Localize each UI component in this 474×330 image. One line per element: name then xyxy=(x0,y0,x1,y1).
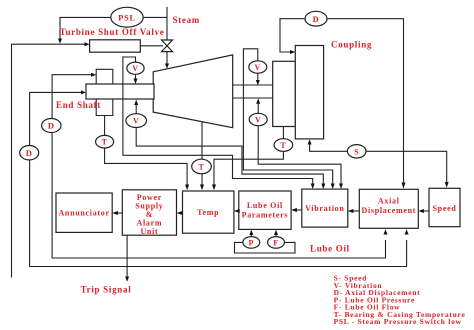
svg-text:D: D xyxy=(26,148,33,158)
svg-text:D: D xyxy=(313,14,320,24)
svg-text:Turbine Shut Off Valve: Turbine Shut Off Valve xyxy=(60,27,165,37)
svg-text:Steam: Steam xyxy=(173,15,201,25)
pressure switch PSL xyxy=(111,7,143,27)
wire Vibration to Lube Oil arrow xyxy=(291,208,302,212)
end shaft (left) xyxy=(86,84,154,99)
coupling main rectangle xyxy=(295,46,323,139)
svg-text:V: V xyxy=(133,117,139,126)
box Lube Oil Parameters xyxy=(239,191,291,229)
sensor V lower-left xyxy=(126,114,147,128)
wire axial bus D1 up into axial box xyxy=(384,229,388,234)
wire P stem into lube oil box xyxy=(249,230,253,237)
lube oil pipe xyxy=(235,242,296,253)
svg-text:Displacement: Displacement xyxy=(361,206,416,215)
svg-text:Temp: Temp xyxy=(197,208,219,217)
wire PSL left drop to valve feed xyxy=(58,17,111,43)
steam pipe xyxy=(166,7,168,41)
wire Axial to Vibration arrow xyxy=(348,209,360,213)
wire S probe to coupling xyxy=(308,139,348,151)
coupling hub rectangle xyxy=(273,61,296,126)
turbine shut off valve body xyxy=(90,40,141,52)
wire axial bus D2 up into axial box xyxy=(405,229,409,234)
box Annunciator xyxy=(56,193,112,232)
wire Power Supply to Annunciator arrow xyxy=(112,211,122,215)
wire upper-left V into vibration box xyxy=(308,179,315,190)
svg-text:V: V xyxy=(132,64,138,73)
wire S to speed box xyxy=(366,151,449,187)
wire T3 stem from coupling hub xyxy=(282,127,284,139)
right shaft between turbine and coupling xyxy=(233,85,273,98)
sensor V upper-right xyxy=(249,61,267,73)
svg-text:Annunciator: Annunciator xyxy=(58,209,109,218)
svg-text:V: V xyxy=(255,63,261,72)
wire T1 stem from bearing block xyxy=(104,116,106,136)
svg-text:P: P xyxy=(249,238,255,247)
wire lower-right V arrow up into shaft xyxy=(256,98,260,113)
svg-text:D: D xyxy=(48,121,55,131)
wire D top to coupling left xyxy=(280,19,305,54)
legend xyxy=(334,274,466,327)
box Temp xyxy=(183,191,234,233)
steam pipe below valve into turbine xyxy=(165,52,169,69)
wire D1 sensor line to bearing block xyxy=(52,73,96,119)
svg-text:Lube Oil: Lube Oil xyxy=(247,201,283,210)
wire upper-right V arrow into shaft xyxy=(256,73,260,85)
wire D2 sensor line to end shaft xyxy=(30,90,86,145)
wire D2 down to axial bus xyxy=(30,160,407,267)
sensor T1 (end shaft bearing) xyxy=(96,135,114,148)
svg-text:Trip Signal: Trip Signal xyxy=(81,285,132,295)
wire T2 into temp box xyxy=(200,174,204,190)
wire PSL to steam pipe xyxy=(112,16,168,18)
wire D1 down to axial bus xyxy=(52,133,385,259)
wire valve body to steam valve xyxy=(140,45,163,47)
bearing block on end shaft xyxy=(96,69,113,115)
svg-text:Coupling: Coupling xyxy=(331,40,372,50)
wire lower-right V down to vibration xyxy=(258,126,343,189)
turbine casing xyxy=(153,55,233,128)
svg-text:V: V xyxy=(255,116,261,125)
wire lower-left V arrow up into shaft xyxy=(134,100,138,114)
svg-text:T: T xyxy=(198,163,204,172)
svg-text:Vibration: Vibration xyxy=(305,204,344,213)
wire upper-right V link xyxy=(243,49,334,189)
wire lower-left V down to vibration xyxy=(136,128,325,190)
wire trip loop up left side to valve feed xyxy=(12,42,90,277)
wire Speed to Axial arrow xyxy=(418,209,429,213)
sensor T3 (coupling bearing) xyxy=(274,139,293,152)
svg-text:Lube Oil: Lube Oil xyxy=(310,244,350,254)
svg-text:End Shaft: End Shaft xyxy=(56,100,101,110)
sensor S xyxy=(347,145,366,158)
wire Lube Oil to Temp arrow xyxy=(234,209,240,213)
svg-text:F: F xyxy=(273,238,279,247)
wire T2 stem from turbine casing xyxy=(201,121,203,159)
svg-text:S: S xyxy=(354,147,359,156)
svg-text:T: T xyxy=(102,138,108,147)
sensor P (lube oil pressure) xyxy=(243,237,260,249)
wire T3 to temp box xyxy=(212,151,283,190)
svg-text:T: T xyxy=(280,141,286,150)
sensor V lower-right xyxy=(249,113,267,125)
sensor T2 (casing) xyxy=(192,159,212,174)
svg-text:Parameters: Parameters xyxy=(242,211,289,220)
wire upper-left V arrow into shaft xyxy=(134,74,138,84)
box Speed xyxy=(429,188,460,226)
svg-text:Speed: Speed xyxy=(433,204,457,213)
box Power Supply & Alarm Unit xyxy=(122,190,176,236)
sensor V upper-left xyxy=(127,62,144,74)
svg-text:Axial: Axial xyxy=(378,197,400,206)
sensor D2 xyxy=(20,146,39,160)
sensor D (coupling) xyxy=(305,11,327,26)
wire Temp to Power Supply arrow xyxy=(177,211,183,215)
wire T1 to temp box xyxy=(105,148,190,190)
svg-text:Unit: Unit xyxy=(140,227,158,236)
box Axial Displacement xyxy=(359,189,418,228)
wire D top right to axial displacement xyxy=(327,19,406,189)
sensor D1 xyxy=(42,119,61,133)
svg-text:PSL: PSL xyxy=(118,12,136,22)
svg-text:PSL - Steam Pressure Switch lo: PSL - Steam Pressure Switch low xyxy=(334,317,462,326)
wire upper-left V link over shaft xyxy=(123,57,308,179)
sensor F (lube oil flow) xyxy=(268,237,285,249)
box Vibration xyxy=(302,189,348,227)
wire trip signal from power supply xyxy=(125,235,129,282)
wire F stem into lube oil box xyxy=(274,230,278,237)
valve symbol (hourglass) on steam line xyxy=(162,40,173,52)
